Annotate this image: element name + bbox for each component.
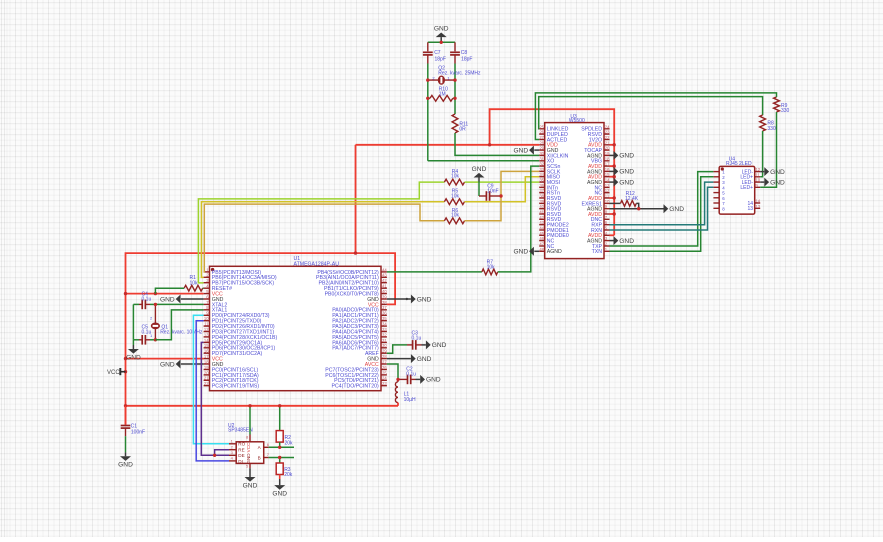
svg-text:GND: GND (619, 179, 634, 186)
wire yellow to W5500 MISO (465, 177, 540, 202)
wire XTAL2 (155, 303, 203, 305)
ground C1 (118, 456, 133, 468)
svg-text:34: 34 (539, 172, 544, 177)
svg-text:10k: 10k (451, 212, 460, 218)
resistor R7 10k (482, 260, 498, 275)
wire (132, 340, 134, 345)
svg-text:28: 28 (382, 354, 387, 359)
svg-text:GND: GND (432, 342, 447, 349)
resistor R1 10k (184, 275, 203, 291)
svg-text:10k: 10k (190, 280, 199, 286)
svg-text:0.1u: 0.1u (412, 335, 422, 341)
wire (279, 458, 281, 464)
ground C9 arrow (472, 166, 487, 178)
svg-text:20: 20 (605, 146, 610, 151)
wire RS485 dir purple (201, 342, 229, 455)
wire (610, 181, 614, 183)
svg-text:42: 42 (539, 215, 544, 220)
junction (124, 357, 127, 360)
wire (202, 287, 205, 289)
svg-text:C1: C1 (131, 423, 138, 429)
svg-text:28: 28 (539, 140, 544, 145)
svg-text:21: 21 (204, 376, 209, 381)
svg-text:24: 24 (382, 376, 387, 381)
wire olive to W5500 SCLK (465, 171, 540, 220)
wire VDD to AVDD over the top (490, 109, 615, 235)
ground U2 (243, 477, 258, 489)
svg-text:14: 14 (755, 199, 760, 204)
svg-text:GND: GND (513, 249, 528, 256)
wire (490, 195, 501, 197)
wire MOSI olive (204, 204, 445, 272)
svg-text:42: 42 (382, 278, 387, 283)
svg-text:29: 29 (539, 146, 544, 151)
junction (613, 175, 616, 178)
capacitor C3 0.1u (407, 330, 422, 349)
svg-text:GND: GND (472, 166, 487, 173)
junction (488, 143, 491, 146)
svg-text:15: 15 (605, 172, 610, 177)
junction (453, 78, 456, 81)
ground W5500 AGND14 (614, 178, 635, 187)
svg-text:PC4(TDO/PCINT20): PC4(TDO/PCINT20) (332, 384, 380, 390)
svg-text:10nF: 10nF (487, 188, 498, 194)
capacitor C4 0.1u (133, 291, 151, 309)
wire TXN (610, 177, 714, 252)
wire AREF to C3 (387, 345, 407, 353)
svg-text:20: 20 (204, 370, 209, 375)
svg-text:43: 43 (539, 220, 544, 225)
svg-text:23: 23 (605, 130, 610, 135)
svg-text:22: 22 (204, 381, 209, 386)
junction (124, 292, 127, 295)
svg-text:10k: 10k (451, 174, 460, 180)
wire (427, 42, 429, 51)
capacitor C9 10nF (479, 183, 501, 200)
svg-text:30: 30 (539, 151, 544, 156)
svg-text:13: 13 (605, 183, 610, 188)
wire (145, 339, 150, 341)
svg-text:18: 18 (605, 156, 610, 161)
wire (416, 344, 422, 346)
wire (397, 379, 399, 381)
svg-text:RJ45 2LED: RJ45 2LED (726, 161, 752, 167)
svg-text:2: 2 (150, 316, 153, 321)
wire (249, 468, 251, 477)
wire VCC bottom rail (126, 405, 399, 407)
svg-text:11: 11 (204, 322, 209, 327)
ground U4 LED- pin10 (764, 178, 785, 187)
wire AVDD stub (610, 165, 615, 167)
svg-text:27: 27 (539, 135, 544, 140)
svg-text:14: 14 (204, 338, 209, 343)
svg-text:1M: 1M (439, 91, 446, 97)
wire GND (387, 358, 411, 360)
resistor R4 10k (444, 169, 464, 185)
wire ACTLED to R9 (535, 93, 776, 140)
wire C1 to ground (125, 436, 127, 452)
svg-text:40: 40 (382, 289, 387, 294)
wire RE branch purple (215, 450, 229, 456)
ground W5500 AGND3 (614, 236, 635, 245)
svg-text:W5500: W5500 (569, 118, 585, 124)
wire (397, 403, 399, 406)
svg-text:10: 10 (605, 199, 610, 204)
wire (427, 55, 429, 64)
wire (125, 406, 127, 425)
junction (124, 404, 127, 407)
wire (478, 182, 480, 197)
svg-text:2: 2 (231, 444, 234, 449)
svg-text:GND: GND (160, 361, 175, 368)
svg-text:16: 16 (204, 349, 209, 354)
ground Q2 arrow (434, 25, 449, 37)
svg-text:11: 11 (605, 194, 610, 199)
svg-text:1: 1 (231, 438, 234, 443)
svg-text:16: 16 (605, 167, 610, 172)
svg-text:38: 38 (539, 194, 544, 199)
svg-text:AGND: AGND (547, 249, 562, 255)
resistor R10 1M (430, 86, 453, 101)
wire left ground leg (132, 304, 134, 339)
wire VCC net vertical left rail (126, 253, 396, 425)
svg-text:40: 40 (539, 204, 544, 209)
svg-text:38: 38 (382, 300, 387, 305)
svg-text:21: 21 (605, 140, 610, 145)
wire (150, 339, 155, 341)
junction (154, 338, 157, 341)
svg-text:29: 29 (382, 349, 387, 354)
svg-text:30: 30 (382, 343, 387, 348)
junction (396, 378, 399, 381)
svg-text:37: 37 (539, 188, 544, 193)
wire AVDD stub (610, 234, 615, 236)
svg-text:19: 19 (204, 365, 209, 370)
svg-text:GND: GND (417, 356, 432, 363)
wire AVDD stub (610, 144, 615, 146)
svg-text:39: 39 (539, 199, 544, 204)
svg-text:10: 10 (204, 316, 209, 321)
junction (278, 446, 281, 449)
svg-text:13: 13 (755, 204, 760, 209)
svg-text:GND: GND (434, 25, 449, 32)
svg-text:330: 330 (781, 108, 790, 114)
svg-text:20k: 20k (284, 472, 293, 478)
svg-text:LED+: LED+ (740, 185, 753, 191)
ground U1 GND pin28 (411, 354, 432, 363)
wire (453, 97, 455, 99)
svg-text:10µH: 10µH (404, 397, 416, 403)
svg-text:43: 43 (382, 273, 387, 278)
wire (428, 97, 430, 99)
svg-text:ATMEGA1284P-AU: ATMEGA1284P-AU (294, 261, 340, 267)
wire (133, 303, 139, 305)
resistor R9 330 (774, 97, 790, 114)
wire (150, 303, 155, 305)
svg-text:10k: 10k (487, 264, 496, 270)
svg-text:25: 25 (382, 370, 387, 375)
wire right crystal leg (454, 64, 456, 115)
svg-text:47: 47 (539, 242, 544, 247)
wire (610, 240, 614, 242)
capacitor C1 100nF (121, 406, 145, 436)
wire to W5500 MOSI (465, 181, 540, 183)
svg-text:3: 3 (231, 450, 234, 455)
resistor R8 330 (760, 115, 776, 132)
wire (133, 339, 139, 341)
wire (139, 303, 142, 305)
svg-text:GND: GND (126, 354, 141, 361)
wire AGND (610, 208, 664, 210)
junction (213, 454, 216, 457)
power symbol VCC (107, 368, 126, 376)
wire TXP (610, 172, 714, 246)
svg-text:GND: GND (426, 377, 441, 384)
wire (422, 344, 426, 346)
junction (613, 212, 616, 215)
svg-text:33: 33 (539, 167, 544, 172)
junction (248, 404, 251, 407)
resistor R2 20k (276, 406, 293, 448)
junction (426, 97, 429, 100)
svg-text:41: 41 (382, 284, 387, 289)
svg-text:C8: C8 (461, 50, 468, 56)
svg-text:48: 48 (539, 247, 544, 252)
wire VCC riser to W5500 VDD (355, 145, 357, 253)
wire TXD0 blue (196, 321, 229, 461)
junction (154, 292, 157, 295)
wire (440, 37, 442, 42)
wire (125, 428, 127, 436)
wire VCC to U1 pin17 (126, 358, 204, 360)
svg-text:35: 35 (382, 316, 387, 321)
ground W5500 AGND pin48 (513, 247, 533, 256)
svg-text:25: 25 (539, 124, 544, 129)
wire MISO yellow (201, 202, 444, 278)
svg-text:37: 37 (382, 305, 387, 310)
wire (407, 344, 413, 346)
svg-text:DI: DI (238, 459, 243, 464)
resistor R11 0R (452, 114, 468, 133)
wire RXP (610, 182, 714, 225)
wire (279, 442, 281, 447)
svg-text:17: 17 (605, 162, 610, 167)
wire gnd bar (428, 41, 455, 43)
svg-text:TXN: TXN (592, 249, 603, 255)
wire (279, 406, 281, 431)
wire R8 to LED+ pin11 (760, 131, 762, 177)
junction (613, 196, 616, 199)
svg-text:22: 22 (605, 135, 610, 140)
svg-text:19: 19 (605, 151, 610, 156)
wire XO (428, 160, 539, 162)
svg-text:45: 45 (539, 231, 544, 236)
svg-text:8: 8 (246, 435, 249, 440)
svg-text:100nF: 100nF (131, 430, 145, 436)
pin wire (428, 79, 455, 81)
pin wire (154, 304, 156, 339)
svg-text:7: 7 (267, 452, 270, 457)
wire B (269, 457, 294, 459)
wire EXRES1 (610, 202, 621, 204)
wire (145, 303, 150, 305)
wire AVDD stub (610, 213, 615, 215)
wire SCSn riser (498, 166, 540, 272)
wire (610, 170, 614, 172)
svg-text:15: 15 (204, 343, 209, 348)
wire (760, 181, 764, 183)
ground U1 GND pin39 (411, 295, 432, 304)
svg-text:35: 35 (539, 178, 544, 183)
ground W5500 AGND19 (614, 151, 635, 160)
svg-text:17: 17 (204, 354, 209, 359)
ground U1 GND pin18 (160, 360, 180, 369)
svg-text:44: 44 (382, 267, 387, 272)
svg-text:36: 36 (539, 183, 544, 188)
svg-text:330: 330 (767, 126, 776, 132)
wire (139, 339, 142, 341)
svg-text:20k: 20k (285, 441, 294, 447)
ground U4 LED- pin12 (764, 167, 785, 176)
svg-text:18pF: 18pF (435, 57, 446, 63)
ground U1 GND pin6 (160, 295, 180, 304)
svg-text:32: 32 (539, 162, 544, 167)
ground R12 (664, 204, 685, 213)
svg-text:GND: GND (417, 296, 432, 303)
wire left crystal leg (427, 64, 429, 161)
crystal Q2 25MHz (428, 65, 481, 84)
ground W5500 AGND16 (614, 167, 635, 176)
crystal Q1 10MHz (150, 304, 203, 339)
svg-text:GND: GND (272, 491, 287, 498)
svg-text:44: 44 (539, 226, 544, 231)
svg-text:1: 1 (150, 333, 153, 338)
svg-text:23: 23 (382, 381, 387, 386)
inductor L1 10uH (395, 379, 416, 405)
wire AVDD stub (610, 197, 615, 199)
wire LINKLED to R8 (539, 97, 763, 129)
wire (416, 378, 421, 380)
wire (279, 475, 281, 480)
svg-text:GND: GND (246, 453, 251, 464)
junction (124, 370, 127, 373)
wire SCK light green (198, 182, 444, 283)
svg-text:B: B (258, 455, 261, 460)
svg-text:VCC: VCC (246, 442, 251, 452)
svg-text:12: 12 (605, 188, 610, 193)
svg-text:GND: GND (243, 482, 258, 489)
wire AVDD stub (610, 176, 615, 178)
svg-text:GND: GND (513, 147, 528, 154)
junction (426, 78, 429, 81)
wire (398, 378, 408, 380)
wire (454, 42, 456, 51)
junction (354, 251, 357, 254)
wire (479, 195, 486, 197)
resistor R12 12.4K (610, 191, 639, 209)
wire AVCC (387, 364, 398, 379)
resistor R3 20k (276, 458, 293, 480)
svg-text:DE: DE (238, 453, 244, 458)
wire (411, 378, 416, 380)
svg-text:39: 39 (382, 294, 387, 299)
svg-text:14: 14 (605, 178, 610, 183)
svg-text:6: 6 (267, 442, 270, 447)
wire (760, 171, 764, 173)
wire (249, 406, 251, 435)
junction (613, 143, 616, 146)
junction (154, 303, 157, 306)
wire (387, 271, 482, 273)
wire VCC to U1 pin5 (126, 293, 204, 295)
wire (610, 154, 614, 156)
svg-text:C7: C7 (434, 50, 441, 56)
svg-text:27: 27 (382, 359, 387, 364)
capacitor C8 18pF (450, 42, 472, 63)
junction (440, 41, 443, 44)
svg-text:4: 4 (231, 456, 234, 461)
svg-text:24: 24 (605, 124, 610, 129)
junction (499, 194, 502, 197)
wire A (269, 446, 294, 448)
wire VDD rail W5500 (356, 144, 540, 146)
svg-text:31: 31 (539, 156, 544, 161)
svg-text:46: 46 (539, 236, 544, 241)
wire R9 to LED+ pin9 (760, 112, 776, 187)
svg-text:PC3(PCINT19/TMS): PC3(PCINT19/TMS) (212, 384, 260, 390)
wire GND (387, 298, 411, 300)
svg-text:VCC: VCC (107, 370, 120, 376)
capacitor C5 0.1u (133, 324, 151, 344)
svg-text:18pF: 18pF (461, 57, 472, 63)
IC U2 SP3485EN (228, 423, 270, 468)
IC U1 ATMEGA1284P-AU (204, 256, 388, 390)
junction (278, 404, 281, 407)
svg-text:GND: GND (160, 296, 175, 303)
junction (453, 97, 456, 100)
ground C2 (420, 375, 441, 384)
svg-text:GND: GND (770, 169, 785, 176)
IC U3 W5500 (539, 114, 610, 259)
ground C3 (426, 340, 447, 349)
capacitor C7 18pF (423, 42, 446, 63)
svg-text:11: 11 (755, 172, 760, 177)
resistor R5 10k (444, 189, 464, 205)
svg-text:13: 13 (204, 332, 209, 337)
svg-text:10k: 10k (451, 193, 460, 199)
connector U4 RJ45 2LED (713, 157, 760, 214)
svg-text:32: 32 (382, 332, 387, 337)
junction (637, 207, 640, 210)
resistor R6 10k (444, 208, 464, 224)
ground W5500 GND (513, 146, 533, 155)
svg-text:0.1u: 0.1u (142, 296, 152, 302)
wire XTAL1 (155, 310, 203, 340)
ground R3 (272, 485, 287, 497)
svg-text:12.4K: 12.4K (625, 196, 639, 202)
svg-text:12: 12 (204, 327, 209, 332)
svg-text:0R: 0R (459, 127, 466, 133)
wire R1 to VCC (155, 288, 184, 293)
svg-text:RO: RO (238, 442, 245, 447)
svg-text:33: 33 (382, 327, 387, 332)
wire (454, 55, 456, 64)
svg-text:0.1u: 0.1u (406, 372, 416, 378)
svg-text:GND: GND (619, 153, 634, 160)
svg-text:GND: GND (619, 238, 634, 245)
junction (278, 456, 281, 459)
svg-text:GND: GND (619, 169, 634, 176)
